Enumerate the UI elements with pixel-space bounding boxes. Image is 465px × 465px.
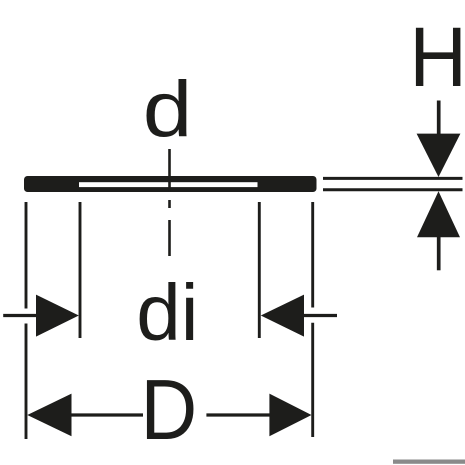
D dimension tail right	[206, 413, 270, 416]
washer bore white stripe	[79, 182, 258, 187]
H leader line upper	[437, 101, 441, 135]
D dimension tail left	[71, 413, 143, 416]
extension line di left	[79, 202, 82, 338]
extension line di right	[258, 202, 261, 338]
svg-text:di: di	[136, 268, 198, 357]
D dimension arrow left (points left at outer edge)	[27, 394, 71, 437]
di dimension tail left	[3, 314, 36, 317]
svg-text:H: H	[409, 11, 465, 105]
di arrow right (points left at inner edge)	[261, 295, 304, 337]
gray page indicator bar bottom right	[393, 460, 465, 464]
di arrow left (points right at inner edge)	[36, 295, 79, 337]
washer cross-section bar	[24, 176, 317, 192]
extension line D left (upper segment)	[25, 202, 28, 309]
centerline solid segment through bar	[168, 149, 171, 192]
extension line D left (lower segment)	[25, 324, 28, 440]
H thickness line bottom	[323, 188, 463, 191]
centerline long dash	[168, 220, 171, 256]
D dimension arrow right (points right at outer edge)	[269, 394, 311, 437]
extension line D right (upper segment)	[311, 202, 314, 308]
svg-text:D: D	[141, 363, 198, 458]
di dimension tail right	[304, 314, 338, 317]
H thickness line top	[323, 177, 463, 180]
centerline short dash	[168, 200, 171, 208]
svg-text:d: d	[143, 65, 193, 153]
H leader line lower	[437, 237, 441, 270]
H arrow up	[417, 191, 460, 237]
extension line D right (lower segment)	[311, 323, 314, 437]
H arrow down	[417, 134, 461, 177]
